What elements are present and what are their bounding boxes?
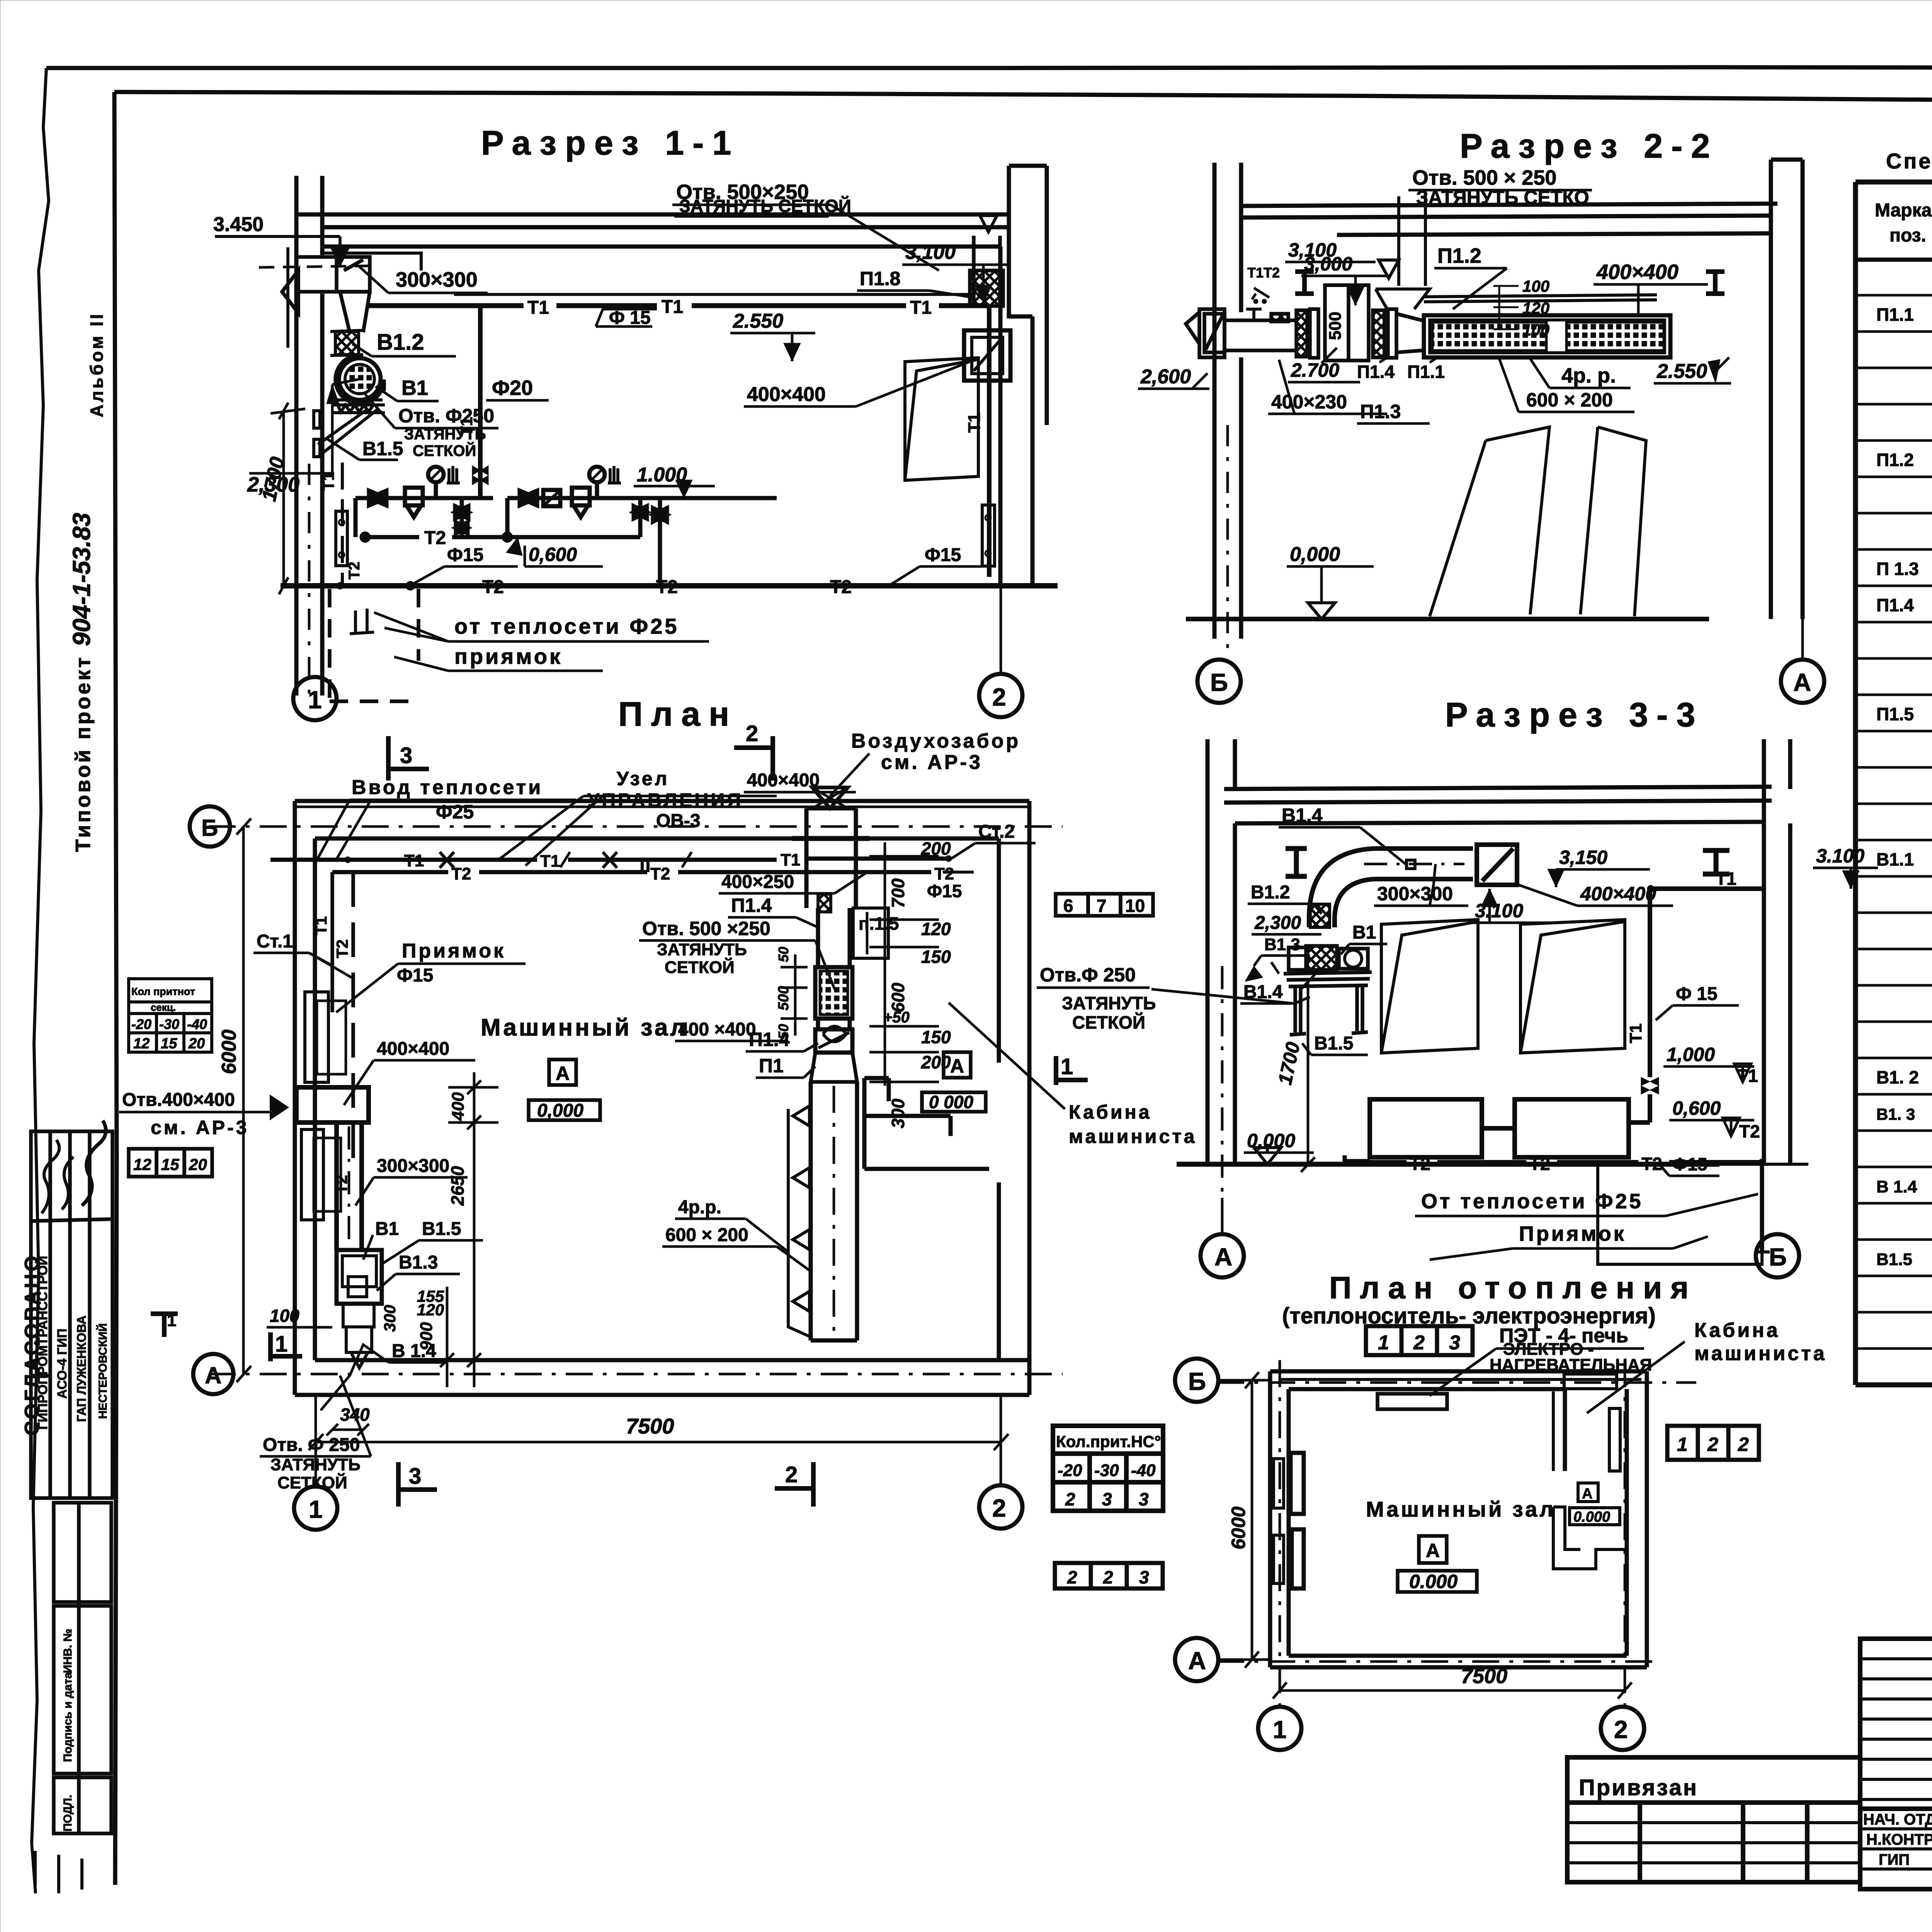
svg-text:400×230: 400×230 — [1271, 391, 1347, 413]
duct from fan to roof outlet — [1309, 845, 1517, 927]
axes dash-dot — [1217, 1381, 1696, 1384]
svg-text:0 000: 0 000 — [929, 1092, 974, 1112]
dim 6000 — [242, 827, 245, 1374]
floor — [1186, 617, 1709, 621]
svg-text:П 1.3: П 1.3 — [1876, 559, 1919, 579]
svg-text:0.000: 0.000 — [1573, 1509, 1610, 1525]
svg-text:120: 120 — [1522, 299, 1549, 317]
svg-text:120: 120 — [921, 919, 951, 939]
right vertical duct with grille — [811, 908, 857, 1340]
svg-text:Т2: Т2 — [1410, 1154, 1430, 1174]
svg-text:2.550: 2.550 — [1656, 360, 1707, 383]
svg-text:А: А — [1188, 1647, 1206, 1675]
svg-text:П1.4: П1.4 — [1357, 362, 1395, 382]
svg-text:400×400: 400×400 — [747, 383, 826, 406]
svg-text:В1. 3: В1. 3 — [1876, 1105, 1915, 1123]
svg-text:-20: -20 — [131, 1016, 151, 1032]
box 400x400 below — [964, 330, 1010, 381]
svg-text:2: 2 — [1738, 1434, 1749, 1455]
svg-text:Т1: Т1 — [457, 417, 476, 437]
heater on top wall — [1378, 1394, 1447, 1409]
svg-text:100: 100 — [270, 1306, 299, 1326]
svg-text:1: 1 — [167, 1311, 176, 1330]
svg-text:400×400: 400×400 — [1596, 260, 1679, 284]
svg-text:300×300: 300×300 — [396, 268, 478, 291]
top border line A — [46, 67, 1932, 69]
section mark 1 right — [1056, 1056, 1088, 1085]
svg-text:Ф15: Ф15 — [925, 545, 961, 565]
axis circles left — [190, 806, 230, 847]
svg-text:Отв. 500 × 250: Отв. 500 × 250 — [1412, 166, 1556, 189]
svg-text:-30: -30 — [1094, 1461, 1119, 1480]
pit right below floor — [1598, 1164, 1762, 1264]
svg-text:Ф25: Ф25 — [436, 801, 474, 823]
svg-text:Б: Б — [201, 815, 218, 841]
svg-text:600: 600 — [888, 983, 908, 1012]
funnel intake — [1379, 260, 1399, 278]
radiators — [1370, 1099, 1482, 1157]
svg-text:2.700: 2.700 — [1291, 359, 1339, 381]
svg-text:В1: В1 — [1352, 922, 1376, 943]
dim chains vertical right of duct — [440, 1072, 498, 1387]
I-beams under roof — [1295, 272, 1314, 294]
svg-text:0,000: 0,000 — [1290, 543, 1340, 566]
svg-text:Т1: Т1 — [1626, 1024, 1645, 1043]
svg-text:3.450: 3.450 — [213, 213, 264, 236]
svg-text:Ф 15: Ф 15 — [609, 308, 651, 328]
svg-text:2.550: 2.550 — [733, 310, 783, 332]
T2 mid line — [362, 534, 640, 541]
svg-text:Т1: Т1 — [781, 850, 800, 869]
left column — [1214, 163, 1241, 639]
svg-text:ГИП: ГИП — [1879, 1851, 1910, 1868]
svg-text:П1: П1 — [759, 1055, 784, 1077]
svg-text:Ф15: Ф15 — [397, 965, 433, 986]
svg-text:20: 20 — [188, 1036, 205, 1052]
duct 400x400 through left wall — [271, 1087, 369, 1250]
svg-text:12: 12 — [133, 1155, 151, 1173]
heat pipes T1 T2 entry top — [270, 859, 974, 872]
svg-text:В 1.4: В 1.4 — [1876, 1177, 1917, 1196]
svg-text:Т1: Т1 — [540, 852, 560, 871]
dashed pit below floor — [330, 589, 418, 701]
svg-text:В1.5: В1.5 — [1314, 1033, 1353, 1054]
1 2 2 box — [1667, 1426, 1759, 1460]
svg-text:-40: -40 — [187, 1016, 207, 1032]
dim 7500 — [1280, 1689, 1625, 1692]
svg-text:15: 15 — [161, 1155, 179, 1173]
svg-text:150: 150 — [921, 1027, 951, 1047]
svg-text:Машинный зал: Машинный зал — [1366, 1497, 1556, 1521]
svg-text:машиниста: машиниста — [1694, 1342, 1827, 1365]
svg-text:2,300: 2,300 — [1254, 913, 1301, 933]
axis circles 1 and 2 — [293, 677, 337, 720]
svg-text:7500: 7500 — [626, 1414, 674, 1438]
svg-text:-30: -30 — [159, 1016, 179, 1032]
svg-text:П1.3: П1.3 — [1360, 401, 1401, 422]
louvre arrow outside — [282, 270, 298, 313]
svg-text:900: 900 — [417, 1322, 436, 1350]
T1 riser down — [1648, 889, 1652, 1077]
pipe risers along left wall — [330, 872, 334, 1012]
flexible insert B1.2 — [335, 332, 359, 355]
left frame vertical — [114, 92, 117, 1885]
svg-text:см. АР-3: см. АР-3 — [881, 751, 983, 774]
svg-text:Альбом II: Альбом II — [87, 312, 107, 417]
lower margin boxes — [54, 1503, 111, 1833]
svg-text:План: План — [618, 695, 738, 733]
column axis dash — [308, 464, 311, 699]
svg-text:Т2: Т2 — [1529, 1154, 1550, 1174]
svg-text:50: 50 — [776, 1024, 791, 1039]
left wall pit rectangles — [301, 992, 346, 1220]
svg-text:Отв. 500 ×250: Отв. 500 ×250 — [642, 918, 770, 939]
T1 supply pipe under roof — [367, 303, 989, 308]
cabin mashinista — [853, 908, 989, 1169]
12 15 20 box2 — [129, 1149, 212, 1177]
svg-text:Т2: Т2 — [1739, 1121, 1760, 1141]
svg-text:ГИПРОПРОМТРАНССТРОЙ: ГИПРОПРОМТРАНССТРОЙ — [35, 1256, 50, 1430]
svg-text:П1.1: П1.1 — [1876, 304, 1914, 325]
svg-text:В1.4: В1.4 — [1282, 804, 1323, 826]
svg-text:400×400: 400×400 — [377, 1039, 449, 1059]
svg-text:Т1: Т1 — [312, 916, 330, 935]
svg-text:1: 1 — [1677, 1434, 1688, 1455]
svg-text:Б: Б — [1769, 1243, 1787, 1271]
HEATING-PLAN — [1053, 1270, 1827, 1750]
svg-text:1: 1 — [1061, 1054, 1073, 1079]
svg-text:6000: 6000 — [218, 1029, 240, 1074]
svg-text:поз.: поз. — [1889, 225, 1926, 246]
duct from wall — [1225, 309, 1295, 350]
LEFT-MARGIN — [21, 312, 112, 1893]
svg-text:Ввод теплосети: Ввод теплосети — [352, 776, 543, 799]
svg-text:400 ×400: 400 ×400 — [678, 1019, 756, 1040]
svg-text:200: 200 — [921, 1052, 951, 1072]
dims column right of duct — [869, 842, 939, 1086]
svg-text:ЗАТЯНУТЬ: ЗАТЯНУТЬ — [270, 1455, 361, 1474]
privyazan strip — [1567, 1757, 1860, 1882]
svg-text:Отв.400×400: Отв.400×400 — [122, 1090, 235, 1110]
svg-text:+50: +50 — [883, 1009, 910, 1026]
svg-text:400×400: 400×400 — [1580, 883, 1656, 905]
svg-text:3: 3 — [1449, 1332, 1460, 1354]
1 2 3 box — [1366, 1326, 1473, 1355]
SECTION-1-1 — [213, 124, 1058, 699]
fan B1 — [339, 358, 381, 400]
riser F20 — [478, 306, 483, 498]
svg-text:Разрез 2-2: Разрез 2-2 — [1460, 127, 1718, 165]
radiators left wall — [1291, 1453, 1304, 1514]
heat unit manifold right group — [507, 466, 777, 586]
svg-text:Т1: Т1 — [527, 298, 549, 318]
svg-text:Т2: Т2 — [482, 577, 504, 597]
svg-text:1: 1 — [308, 686, 322, 714]
svg-text:Н.КОНТР.: Н.КОНТР. — [1866, 1831, 1932, 1848]
svg-text:Т2: Т2 — [333, 939, 351, 958]
svg-text:В1: В1 — [375, 1219, 399, 1239]
org stamp table — [31, 1131, 112, 1498]
svg-text:Подпись и дата: Подпись и дата — [61, 1672, 74, 1762]
svg-text:Марка: Марка — [1875, 200, 1932, 221]
fan base — [332, 400, 385, 413]
svg-text:2,600: 2,600 — [1140, 366, 1191, 388]
svg-text:В1. 2: В1. 2 — [1876, 1067, 1919, 1087]
svg-text:600 × 200: 600 × 200 — [1526, 389, 1613, 411]
right chimney column — [1000, 166, 1047, 586]
svg-text:50: 50 — [776, 947, 791, 962]
duct drop cone — [340, 292, 370, 332]
svg-text:2: 2 — [1103, 1567, 1113, 1587]
svg-text:ОВ-3: ОВ-3 — [656, 811, 701, 831]
svg-text:Т1Т2: Т1Т2 — [1247, 265, 1280, 281]
svg-text:-20: -20 — [1058, 1461, 1082, 1480]
cabin inside — [1553, 1389, 1627, 1569]
svg-text:300: 300 — [888, 1099, 908, 1128]
T2 bottom line — [1345, 1155, 1370, 1161]
left tables — [1053, 1426, 1163, 1511]
right side pipe/radiator — [987, 306, 992, 577]
svg-text:Привязан: Привязан — [1579, 1775, 1698, 1800]
svg-text:В1.3: В1.3 — [1264, 935, 1300, 954]
svg-text:1: 1 — [275, 1332, 287, 1357]
air intake louvre left — [1186, 312, 1199, 344]
svg-text:Т2: Т2 — [424, 528, 446, 548]
svg-text:2: 2 — [1707, 1434, 1718, 1455]
svg-text:А: А — [1426, 1540, 1440, 1561]
signatures scribble — [42, 1140, 59, 1213]
svg-text:120: 120 — [417, 1301, 444, 1319]
svg-text:500: 500 — [776, 986, 792, 1010]
duct P1.8 drop right — [970, 236, 1003, 306]
T2 bottom heavy line — [339, 583, 989, 588]
svg-text:2: 2 — [785, 1462, 798, 1487]
svg-text:600 × 200: 600 × 200 — [665, 1225, 748, 1245]
top border line B — [114, 92, 1932, 103]
svg-text:Приямок: Приямок — [402, 940, 506, 962]
svg-text:СЕТКОЙ: СЕТКОЙ — [413, 442, 476, 459]
svg-text:Ф15: Ф15 — [447, 545, 483, 565]
f15 flag — [596, 309, 657, 327]
svg-text:2: 2 — [1065, 1489, 1075, 1509]
svg-text:НЕСТЕРОВСКИЙ: НЕСТЕРОВСКИЙ — [96, 1323, 109, 1419]
svg-text:Ф15: Ф15 — [927, 881, 962, 901]
svg-text:400×400: 400×400 — [747, 770, 820, 791]
svg-text:2: 2 — [1413, 1332, 1425, 1354]
svg-text:Приямок: Приямок — [1519, 1222, 1626, 1245]
svg-text:7500: 7500 — [1461, 1665, 1507, 1688]
svg-text:150: 150 — [921, 947, 951, 967]
svg-text:А: А — [1582, 1486, 1592, 1502]
wall axes dash-dot — [209, 825, 1063, 828]
svg-text:100: 100 — [1522, 277, 1549, 295]
svg-text:Типовой проект: Типовой проект — [71, 655, 95, 852]
svg-text:Т1: Т1 — [1716, 869, 1736, 889]
svg-text:ПОДЛ.: ПОДЛ. — [61, 1795, 74, 1832]
svg-text:2: 2 — [1067, 1567, 1077, 1587]
SECTION-2-2 — [1138, 127, 1824, 703]
svg-text:200: 200 — [921, 838, 951, 859]
svg-text:ЗАТЯНУТЬ: ЗАТЯНУТЬ — [1062, 993, 1156, 1013]
svg-text:Отв. Ф 250: Отв. Ф 250 — [263, 1435, 360, 1455]
svg-text:Ф20: Ф20 — [492, 376, 533, 400]
svg-text:0,600: 0,600 — [529, 544, 577, 565]
svg-text:4р.р.: 4р.р. — [678, 1197, 721, 1218]
svg-text:см. АР-3: см. АР-3 — [151, 1117, 249, 1138]
svg-text:1,000: 1,000 — [1667, 1044, 1715, 1065]
svg-text:Узел: Узел — [617, 768, 669, 789]
PLAN — [190, 695, 1088, 1530]
svg-text:Б: Б — [1188, 1367, 1206, 1395]
bottom axis circles — [294, 1486, 337, 1530]
svg-text:НАЧ. ОТД.: НАЧ. ОТД. — [1863, 1811, 1932, 1828]
svg-text:1: 1 — [1378, 1332, 1389, 1354]
SECTION-3-3 — [1151, 696, 1878, 1277]
svg-text:Т1: Т1 — [319, 472, 337, 491]
svg-text:Ст.1: Ст.1 — [257, 931, 293, 952]
svg-text:500: 500 — [1326, 312, 1345, 340]
column left — [288, 176, 322, 696]
svg-text:В1: В1 — [401, 376, 428, 400]
svg-text:В1.2: В1.2 — [377, 330, 424, 355]
floor line — [281, 583, 1058, 588]
walls outer — [295, 801, 1029, 1395]
floor — [1177, 1162, 1719, 1167]
svg-text:3: 3 — [1139, 1489, 1149, 1509]
right column — [1771, 160, 1803, 619]
leader lines to floor — [1430, 427, 1549, 616]
svg-text:0,600: 0,600 — [1672, 1097, 1721, 1119]
svg-text:300: 300 — [381, 1305, 399, 1332]
svg-text:ЗАТЯНУТЬ: ЗАТЯНУТЬ — [657, 940, 747, 959]
svg-text:700: 700 — [888, 878, 908, 908]
svg-text:Кабина: Кабина — [1069, 1101, 1152, 1123]
svg-text:3,100: 3,100 — [905, 241, 956, 264]
section marks 2 (top and bottom) — [734, 736, 773, 781]
svg-text:3.100: 3.100 — [1475, 900, 1523, 922]
svg-text:Т2: Т2 — [830, 577, 852, 597]
svg-text:3,150: 3,150 — [1559, 847, 1607, 868]
svg-text:Т1: Т1 — [404, 851, 424, 870]
svg-text:П1.4: П1.4 — [731, 895, 772, 916]
fan unit boxes — [1296, 285, 1422, 361]
small table 12 15 20 left — [129, 979, 212, 1052]
dim 500/50 left of grille — [781, 954, 808, 1036]
svg-text:2: 2 — [992, 1494, 1006, 1522]
svg-text:Т2: Т2 — [656, 577, 678, 597]
section marks 3 (top and bottom) — [388, 736, 429, 781]
svg-text:В1.1: В1.1 — [1876, 849, 1914, 869]
window right — [905, 358, 978, 480]
svg-text:20: 20 — [189, 1155, 207, 1173]
axis circles — [1197, 660, 1241, 703]
svg-text:Разрез 3-3: Разрез 3-3 — [1445, 696, 1704, 734]
roof slab — [1241, 204, 1777, 235]
svg-text:П1.8: П1.8 — [860, 268, 900, 289]
svg-text:10: 10 — [1125, 896, 1145, 916]
roof slab lines — [296, 214, 1009, 294]
svg-text:А: А — [1214, 1243, 1232, 1271]
svg-text:Воздухозабор: Воздухозабор — [851, 730, 1020, 752]
svg-text:П1.2: П1.2 — [1876, 450, 1914, 470]
svg-text:В1.5: В1.5 — [362, 438, 403, 459]
svg-text:1: 1 — [309, 1495, 323, 1523]
wall radiator left with T1 pipe — [341, 463, 344, 583]
svg-text:Т2: Т2 — [650, 864, 670, 883]
svg-text:2: 2 — [1614, 1716, 1628, 1743]
svg-text:1: 1 — [1273, 1716, 1287, 1743]
svg-text:Ст.2: Ст.2 — [978, 821, 1015, 842]
bracket B1.5 struts — [314, 409, 378, 457]
wall duct 300x300 — [295, 257, 370, 292]
svg-text:Т2: Т2 — [346, 561, 363, 580]
svg-text:Кабина: Кабина — [1694, 1319, 1780, 1342]
svg-text:ИНВ. №: ИНВ. № — [61, 1629, 74, 1673]
svg-text:Ф 15: Ф 15 — [1676, 984, 1718, 1004]
svg-text:4р. р.: 4р. р. — [1561, 364, 1616, 387]
axis circles — [1175, 1359, 1218, 1402]
svg-text:приямок: приямок — [454, 644, 563, 668]
svg-text:СЕТКОЙ: СЕТКОЙ — [1072, 1012, 1145, 1032]
svg-text:-40: -40 — [1131, 1461, 1156, 1480]
svg-text:П1.4: П1.4 — [1876, 595, 1914, 615]
svg-text:Т1: Т1 — [910, 298, 932, 318]
svg-text:100: 100 — [1522, 321, 1549, 339]
svg-text:П1.1: П1.1 — [1407, 362, 1445, 382]
dim 6000 — [1251, 1380, 1253, 1660]
svg-text:А: А — [556, 1063, 570, 1084]
svg-text:секц.: секц. — [151, 1002, 176, 1013]
svg-text:от теплосети Ф25: от теплосети Ф25 — [454, 614, 679, 638]
svg-text:В1.2: В1.2 — [1251, 882, 1290, 903]
svg-text:3: 3 — [400, 743, 412, 768]
svg-text:П1.5: П1.5 — [1876, 704, 1914, 724]
svg-text:6000: 6000 — [1228, 1507, 1249, 1549]
svg-text:Ф15: Ф15 — [1672, 1154, 1707, 1174]
svg-text:Т2: Т2 — [934, 864, 954, 883]
svg-text:Т1: Т1 — [965, 413, 984, 433]
axis circles — [1201, 1234, 1244, 1277]
fan B1 plan bottom-left — [337, 1250, 382, 1368]
svg-text:А: А — [205, 1362, 221, 1388]
svg-text:План отопления: План отопления — [1329, 1270, 1697, 1305]
svg-text:ГАП ЛУЖЕНКОВА: ГАП ЛУЖЕНКОВА — [75, 1316, 88, 1422]
svg-text:Отв.Ф 250: Отв.Ф 250 — [1040, 964, 1136, 986]
T1 symbol left — [151, 1314, 178, 1337]
TITLE-BLOCK — [1567, 1605, 1932, 1895]
svg-text:6: 6 — [1063, 896, 1073, 916]
svg-text:СЕТКОЙ: СЕТКОЙ — [277, 1473, 347, 1492]
svg-text:Спецификация отопительно - ве: Спецификация отопительно - вентиляционны… — [1886, 149, 1932, 173]
torn left paper edge — [32, 68, 49, 1843]
svg-text:300×300: 300×300 — [377, 1156, 449, 1176]
svg-text:12: 12 — [133, 1036, 150, 1052]
svg-text:В1.3: В1.3 — [399, 1252, 438, 1273]
svg-text:2650: 2650 — [447, 1166, 468, 1206]
grille bracket triangles — [788, 1109, 811, 1337]
svg-text:А: А — [1793, 668, 1811, 696]
svg-text:В1.5: В1.5 — [422, 1219, 461, 1239]
svg-text:15: 15 — [161, 1036, 177, 1052]
svg-text:2: 2 — [992, 683, 1006, 711]
svg-text:3: 3 — [1102, 1489, 1112, 1509]
room walls — [1270, 1371, 1647, 1667]
windows — [1381, 920, 1478, 1053]
svg-text:Т1: Т1 — [1737, 1066, 1758, 1086]
svg-text:Кол.прит.НС°: Кол.прит.НС° — [1056, 1432, 1161, 1451]
svg-text:904-1-53.83: 904-1-53.83 — [68, 513, 95, 646]
svg-text:Т1: Т1 — [662, 297, 683, 317]
